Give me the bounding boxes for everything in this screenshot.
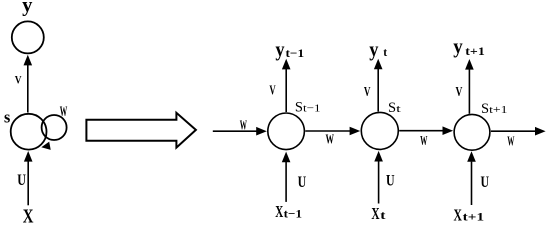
- svg-text:V: V: [15, 73, 22, 87]
- svg-text:V: V: [269, 83, 275, 98]
- svg-text:St+1: St+1: [481, 101, 507, 117]
- svg-text:X: X: [275, 202, 283, 221]
- svg-text:s: s: [4, 108, 11, 127]
- svg-text:W: W: [326, 133, 335, 148]
- wire U arrow (x to s): [24, 151, 33, 205]
- wire U arrow up into St: [374, 151, 383, 204]
- block arrow (unfold): [86, 113, 195, 148]
- wire V arrow up from St: [374, 59, 383, 112]
- svg-text:t−1: t−1: [286, 46, 305, 60]
- svg-text:t−1: t−1: [284, 206, 302, 220]
- svg-text:U: U: [17, 172, 26, 189]
- self-loop W wire: [41, 115, 66, 150]
- svg-text:V: V: [456, 85, 463, 100]
- svg-text:t: t: [383, 45, 387, 59]
- node St+1 circle: [454, 114, 490, 150]
- svg-text:U: U: [298, 174, 307, 191]
- svg-text:W: W: [507, 135, 514, 150]
- svg-text:y: y: [275, 37, 285, 61]
- wire U arrow up into St-1: [282, 152, 291, 202]
- svg-text:W: W: [420, 134, 427, 149]
- svg-text:t+1: t+1: [463, 210, 484, 224]
- svg-text:y: y: [453, 34, 463, 58]
- wire V arrow up from St-1: [282, 59, 291, 112]
- node s circle: [11, 114, 47, 150]
- svg-text:U: U: [386, 173, 395, 190]
- svg-text:V: V: [364, 85, 371, 100]
- svg-text:X: X: [23, 205, 34, 227]
- wire W arrow into node St-1: [213, 127, 267, 136]
- wire U arrow up into St+1: [467, 151, 476, 205]
- wire V arrow (s to output): [24, 55, 33, 113]
- node St circle: [361, 112, 398, 149]
- svg-text:y: y: [369, 37, 379, 61]
- wire W arrow out of St+1: [491, 127, 546, 136]
- svg-text:X: X: [454, 205, 462, 224]
- svg-text:St: St: [388, 100, 401, 116]
- node St-1 circle: [268, 113, 305, 150]
- wire W arrow St-1 to St: [305, 127, 360, 136]
- wire W arrow St to St+1: [399, 126, 453, 135]
- node output circle: [12, 21, 44, 53]
- svg-text:W: W: [240, 119, 247, 134]
- svg-text:U: U: [481, 174, 490, 191]
- svg-text:X: X: [371, 204, 379, 223]
- wire V arrow up from St+1: [465, 59, 474, 114]
- svg-text:St−1: St−1: [295, 99, 321, 115]
- svg-text:t: t: [380, 208, 385, 222]
- svg-text:y: y: [22, 0, 32, 17]
- svg-text:W: W: [60, 104, 68, 120]
- svg-text:t+1: t+1: [465, 44, 485, 58]
